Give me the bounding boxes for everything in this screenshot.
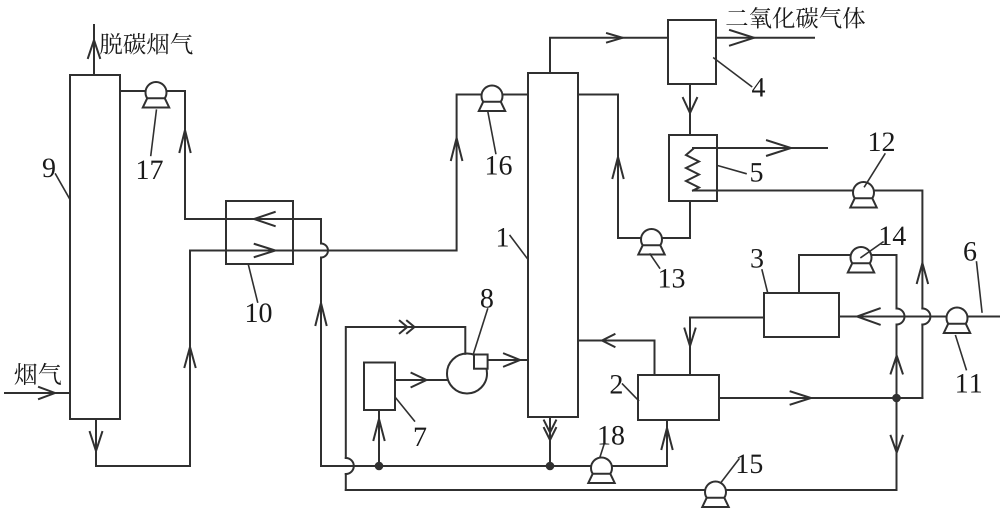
wire column 1 top vapor to separator 4 <box>550 33 668 73</box>
leader line 8 <box>474 309 488 354</box>
leader line 5 <box>718 166 747 174</box>
tank 2 <box>638 375 719 420</box>
column 1 regenerator tower <box>528 73 578 417</box>
label 5 <box>751 163 762 182</box>
wire condenser 5 coil top outlet <box>693 140 827 155</box>
leader line 13 <box>650 254 660 268</box>
pump 8 <box>447 354 488 394</box>
valve 16 <box>479 86 505 112</box>
leader line 1 <box>510 236 528 259</box>
wire condenser 5 bottom to valve 13 line into column 1 <box>578 95 690 239</box>
label 16 <box>487 156 512 175</box>
separator 4 <box>668 20 716 84</box>
wire pump 8 discharge into column 1 <box>488 354 528 367</box>
valve 13 <box>638 229 664 255</box>
wire tank 2 right outlet to junction <box>719 392 922 405</box>
text decarbonized flue gas 脱碳烟气 <box>100 33 192 55</box>
wire flue gas outlet vent from column 9 top <box>88 25 100 75</box>
valve 12 <box>850 182 876 208</box>
junction node at tank 2 outlet <box>892 394 901 403</box>
valve 17 <box>143 82 169 108</box>
label 2 <box>611 375 622 394</box>
reboiler 3 <box>764 293 839 337</box>
wire column 9 bottom drain to heat exchanger 10 cold side <box>90 251 196 467</box>
label 4 <box>752 78 765 96</box>
wire heat exchanger 10 cold side to valve 16 and column 1 <box>190 95 528 258</box>
label 13 <box>660 269 684 288</box>
coil element in condenser 5 <box>686 149 699 191</box>
label 14 <box>881 227 906 245</box>
text flue gas 烟气 <box>15 363 61 385</box>
wire riser from solvent return line to heat exchanger 10 hot side with hop <box>316 219 329 466</box>
tank 7 <box>364 363 395 411</box>
leader line 12 <box>865 154 885 187</box>
label 9 <box>43 158 55 177</box>
valve 15 <box>702 482 728 508</box>
label 7 <box>415 428 426 446</box>
heat exchanger 10 <box>226 201 293 264</box>
leader line 4 <box>714 58 752 87</box>
column 9 absorber tower <box>70 75 120 419</box>
label 15 <box>738 455 762 474</box>
leader line 15 <box>721 459 739 483</box>
label 18 <box>599 426 623 445</box>
wire reboiler 3 top loop through valve 14 down to junction and bottom line to pump loop <box>346 255 905 490</box>
leader line 6 <box>977 262 983 312</box>
label 17 <box>138 161 163 179</box>
leader line 3 <box>762 270 768 292</box>
leader line 2 <box>623 384 639 401</box>
label 10 <box>247 303 271 322</box>
wire solvent return line to tank 2 bottom <box>321 420 673 466</box>
wire reboiler 3 left outlet down into tank 2 <box>685 318 765 376</box>
wire tank 2 top to column 1 <box>578 334 655 375</box>
junction node at column 1 drain <box>546 462 555 471</box>
wire valve 17 line from column 9 top side <box>120 91 191 219</box>
leader line 17 <box>151 110 157 155</box>
wire condenser 5 coil bottom through valve 12 and down with hop <box>693 191 930 399</box>
wire tank 7 feed from solvent return line <box>374 410 385 466</box>
wire riser from bottom line to pump 8 suction loop with hop <box>346 321 466 490</box>
label 1 <box>498 228 508 246</box>
leader line 14 <box>861 242 883 258</box>
wire heat exchanger 10 hot side from riser to valve 17 leg <box>185 212 321 226</box>
text carbon dioxide gas 二氧化碳气体 <box>726 7 865 29</box>
condenser 5 <box>669 135 717 201</box>
valve 11 <box>944 308 970 334</box>
leader line 9 <box>56 174 71 200</box>
wire tank 7 outlet to pump 8 <box>395 373 447 387</box>
junction node at tank 7 feed <box>375 462 384 471</box>
label 6 <box>964 242 976 261</box>
leader line 16 <box>488 113 496 154</box>
label 8 <box>481 289 493 308</box>
wire carbon dioxide gas product line from separator 4 <box>716 30 814 45</box>
wire flue gas inlet into column 9 <box>5 387 69 399</box>
leader line 10 <box>248 265 257 303</box>
wire separator 4 bottom to condenser 5 <box>683 84 697 135</box>
label 12 <box>870 132 894 151</box>
leader line 11 <box>956 336 967 370</box>
wire column 1 bottom drain to solvent return line <box>544 417 556 466</box>
valve 18 <box>588 458 614 484</box>
leader line 7 <box>395 397 414 421</box>
leader line 18 <box>600 445 604 458</box>
wire feed 6 line into reboiler 3 through valve 11 <box>839 308 1000 324</box>
label 11 <box>957 374 981 392</box>
label 3 <box>751 249 763 268</box>
valve 14 <box>848 247 874 273</box>
